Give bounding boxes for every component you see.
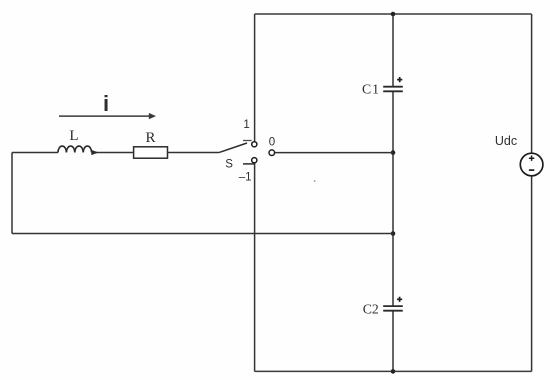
- svg-text:R: R: [145, 130, 155, 146]
- svg-text:L: L: [69, 128, 78, 144]
- svg-text:C2: C2: [363, 301, 379, 316]
- svg-text:Udc: Udc: [495, 134, 517, 148]
- svg-text:C1: C1: [362, 81, 380, 96]
- svg-text:S: S: [225, 159, 233, 171]
- svg-text:1: 1: [243, 119, 249, 131]
- svg-text:0: 0: [269, 136, 275, 148]
- svg-text:–1: –1: [239, 171, 252, 183]
- svg-text:i: i: [103, 91, 109, 116]
